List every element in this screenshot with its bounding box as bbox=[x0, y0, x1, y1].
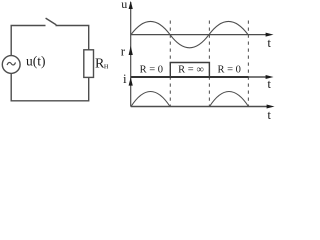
svg-text:t: t bbox=[267, 107, 271, 119]
svg-text:R = 0: R = 0 bbox=[217, 65, 240, 76]
svg-text:u(t): u(t) bbox=[26, 53, 46, 68]
svg-text:r: r bbox=[121, 44, 126, 59]
svg-text:i: i bbox=[123, 71, 127, 86]
svg-text:R = ∞: R = ∞ bbox=[178, 65, 204, 76]
svg-text:R = 0: R = 0 bbox=[140, 65, 163, 76]
svg-text:t: t bbox=[267, 76, 271, 91]
svg-text:н: н bbox=[104, 62, 109, 71]
svg-text:t: t bbox=[267, 35, 271, 50]
svg-text:u: u bbox=[121, 0, 127, 11]
